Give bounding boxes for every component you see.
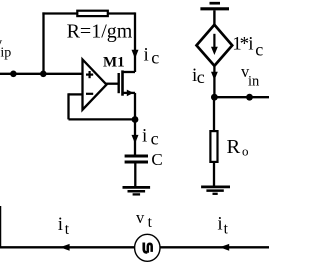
wire: feedback vertical at left (67, 93, 69, 119)
node: dot on v_in wire (246, 94, 253, 101)
label i_c (right) (192, 65, 205, 87)
svg-text:R=1/gm: R=1/gm (67, 20, 133, 42)
op-amp U1 triangle (83, 60, 107, 110)
wire: M1 drain horizontal (123, 71, 136, 73)
svg-text:R: R (227, 136, 241, 158)
label v_in (241, 62, 260, 90)
arrow i_c downward above capacitor (132, 135, 139, 144)
label 1*i_c (232, 34, 263, 60)
wire: feedback bottom horizontal to source node (69, 118, 136, 120)
svg-text:t: t (148, 214, 153, 231)
resistor R_o (210, 131, 217, 162)
svg-text:c: c (255, 39, 263, 59)
svg-text:in: in (248, 74, 260, 90)
ground below capacitor (123, 187, 151, 194)
node: dot on input wire left (10, 71, 17, 78)
op-amp - input marking (86, 93, 93, 95)
arrow i_c downward above v_in node (211, 72, 218, 80)
ground (inverted) above current source (200, 3, 229, 9)
label i_t (right) (217, 214, 228, 238)
label v_t (136, 208, 153, 231)
label v_ip (cut off at left edge) (0, 34, 11, 61)
wire: M1 source vertical down to node (134, 93, 136, 120)
arrow inside current source pointing down (211, 34, 218, 55)
wire: v_in node down to R_o (213, 97, 215, 131)
wire: current source down to v_in node (213, 66, 215, 97)
svg-text:C: C (151, 150, 162, 169)
dependent current source 1*i_c diamond (197, 25, 233, 66)
svg-text:o: o (242, 143, 249, 158)
wire: bottom horizontal right of source (160, 246, 270, 248)
wire: capacitor to ground (134, 162, 136, 187)
wire: R_o to ground (213, 162, 215, 187)
wire: cut-off vertical at left edge (0, 206, 2, 247)
svg-text:i: i (217, 214, 222, 235)
node: v_in junction (211, 94, 218, 101)
wire: v_in horizontal to right edge (214, 96, 269, 98)
svg-text:M1: M1 (103, 54, 125, 70)
arrow i_t pointing left (right side) (220, 244, 230, 251)
node: source/feedback/capacitor junction (132, 116, 139, 123)
wire: node down to capacitor (134, 120, 136, 156)
op-amp + input marking (86, 71, 93, 78)
label i_c (middle) (142, 126, 159, 149)
wire: bottom horizontal left of source (0, 246, 136, 248)
arrow i_c downward on drain wire (132, 50, 139, 59)
svg-text:c: c (151, 48, 159, 68)
wire: feedback loop top horizontal (42, 12, 135, 14)
transistor M1 channel bar (121, 70, 124, 95)
wire: feedback loop left vertical (42, 12, 44, 73)
svg-text:c: c (197, 67, 205, 87)
wire: - input feedback horizontal into op-amp (69, 93, 83, 95)
svg-text:t: t (65, 221, 70, 238)
wire: feedback loop right vertical down to drain (134, 12, 136, 72)
wire: M1 source horizontal (123, 92, 136, 94)
source v_t circle (135, 234, 160, 261)
wire: ground stem to current source (213, 10, 215, 25)
arrow i_t pointing left (left side) (60, 244, 70, 251)
label i_c (top) (144, 45, 160, 68)
sine symbol inside v_t source (144, 243, 152, 253)
resistor R=1/gm (77, 11, 108, 16)
label R_o (227, 136, 249, 159)
svg-text:i: i (144, 45, 149, 66)
wire: op-amp output to gate (106, 83, 119, 85)
svg-text:c: c (151, 129, 159, 149)
svg-text:v: v (136, 208, 145, 227)
svg-text:i: i (58, 214, 63, 235)
svg-text:i: i (142, 126, 147, 147)
ground below R_o (201, 187, 230, 194)
label i_t (left) (58, 214, 70, 238)
svg-text:i: i (248, 34, 253, 55)
capacitor C plates (125, 156, 148, 162)
wire: input v_ip horizontal (0, 73, 83, 75)
svg-text:t: t (224, 220, 229, 237)
transistor M1 gate bar (117, 73, 119, 93)
node: dot at feedback junction (40, 71, 47, 78)
svg-text:ip: ip (0, 45, 11, 60)
arrow on M1 source pointing right (127, 90, 134, 97)
